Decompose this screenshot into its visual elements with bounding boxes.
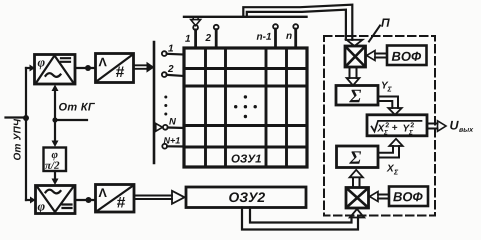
wire: mixer U1 output to ADC1 with junction dot [75,65,95,71]
bus: summator S1 to sqrt block [378,97,402,115]
label От УПЧ (vertical) [14,119,21,160]
contact circle column 1 with stub [193,25,198,48]
label От КГ [59,103,95,111]
label row 1 [168,45,173,52]
contact circle column 2 with stub [214,25,219,48]
ADC U5 (Λ/# converter, bottom) [96,185,135,213]
bus: multiplier M2 up to summator S2 [350,170,363,188]
summator S2 (Σ) [337,146,379,168]
wire: phase shifter to mixer U4 (arrow down) [52,171,59,185]
mixer U4 (phase detector, bottom) [36,186,76,214]
multiplier M2 (X box) [346,188,369,209]
matrix horizontal grid lines [184,69,307,148]
bus: summator S2 up to sqrt block [378,139,403,158]
bus: VOF2 to multiplier M2 (hollow arrow left) [370,192,390,202]
contact circle row 2 + wire [162,72,184,77]
bus: VOF1 to multiplier M1 (hollow arrow left) [367,51,388,61]
label ОЗУ1 [232,154,261,162]
dashed processing box [324,36,435,216]
label row N+1 [164,137,180,143]
contact circle column n with stub [293,24,298,48]
label row 2 [168,65,174,72]
sqrt block (magnitude calculator) [367,115,427,136]
matrix vertical grid lines [206,48,287,167]
label column n [286,34,292,39]
label X sigma [387,165,399,175]
VOF block B2 [389,187,428,207]
VOF block B1 [387,46,427,66]
contact circle row N + wire [163,125,184,130]
label column 2 [205,34,211,41]
label row N [169,118,176,125]
contact circle row N+1 + wire [162,144,184,149]
OZU1 matrix outer frame [184,48,307,167]
wire: UPCh vertical feed to both mixers [26,65,36,204]
wire: mixer U4 output to ADC2 with junction dot [75,197,95,203]
wire: input stub "От УПЧ" [6,115,30,121]
label column 1 [185,35,190,42]
hollow arrow: commutator to contact N [156,124,163,132]
bus: ADC1 output double line, solid arrow into commutator [134,62,155,73]
mixer U1 (phase detector, top) [35,55,76,85]
dots: matrix center ellipsis [234,95,257,118]
bus: ADC2 output double line to OZU2 (hollow arrow) [134,191,185,204]
commutator bus (row selector vertical line) [153,42,156,163]
summator S1 (Σ) [336,86,378,106]
hollow arrow: column bus to contact 1 [191,18,201,26]
bus: multiplier M1 down to summator S1 [347,67,360,86]
wire: KG to mixer U1 bottom (arrow up) [52,85,59,121]
dots: row ellipsis [164,96,167,116]
label Y sigma [382,82,392,92]
bus: sqrt output to Uout (hollow arrow right) [427,121,446,132]
label U_out [450,121,473,132]
ADC U2 (Λ/# converter, top) [96,54,134,83]
wire: KG input line with junction dot [52,117,87,122]
bus: top elbow double line from column bus to multiplier M1 [243,5,362,46]
phase shifter U3 (φ, π/2) [44,148,67,172]
multiplier M1 (X box) [345,46,366,67]
column commutator bus (horizontal line above matrix) [184,16,307,18]
OZU2 block [186,187,306,208]
label column n-1 [257,33,271,40]
slash mark on dashed edge [369,26,380,42]
label П [381,19,390,27]
wire: KG down to phase shifter (arrow down) [52,120,59,147]
hollow arrow: bottom bus into multiplier M2 [350,209,364,218]
bus: OZU2 bottom outputs to multiplier M2 (nested elbows) [242,208,358,230]
contact circle row 1 + wire [162,51,184,56]
contact circle column n-1 with stub [273,24,278,48]
